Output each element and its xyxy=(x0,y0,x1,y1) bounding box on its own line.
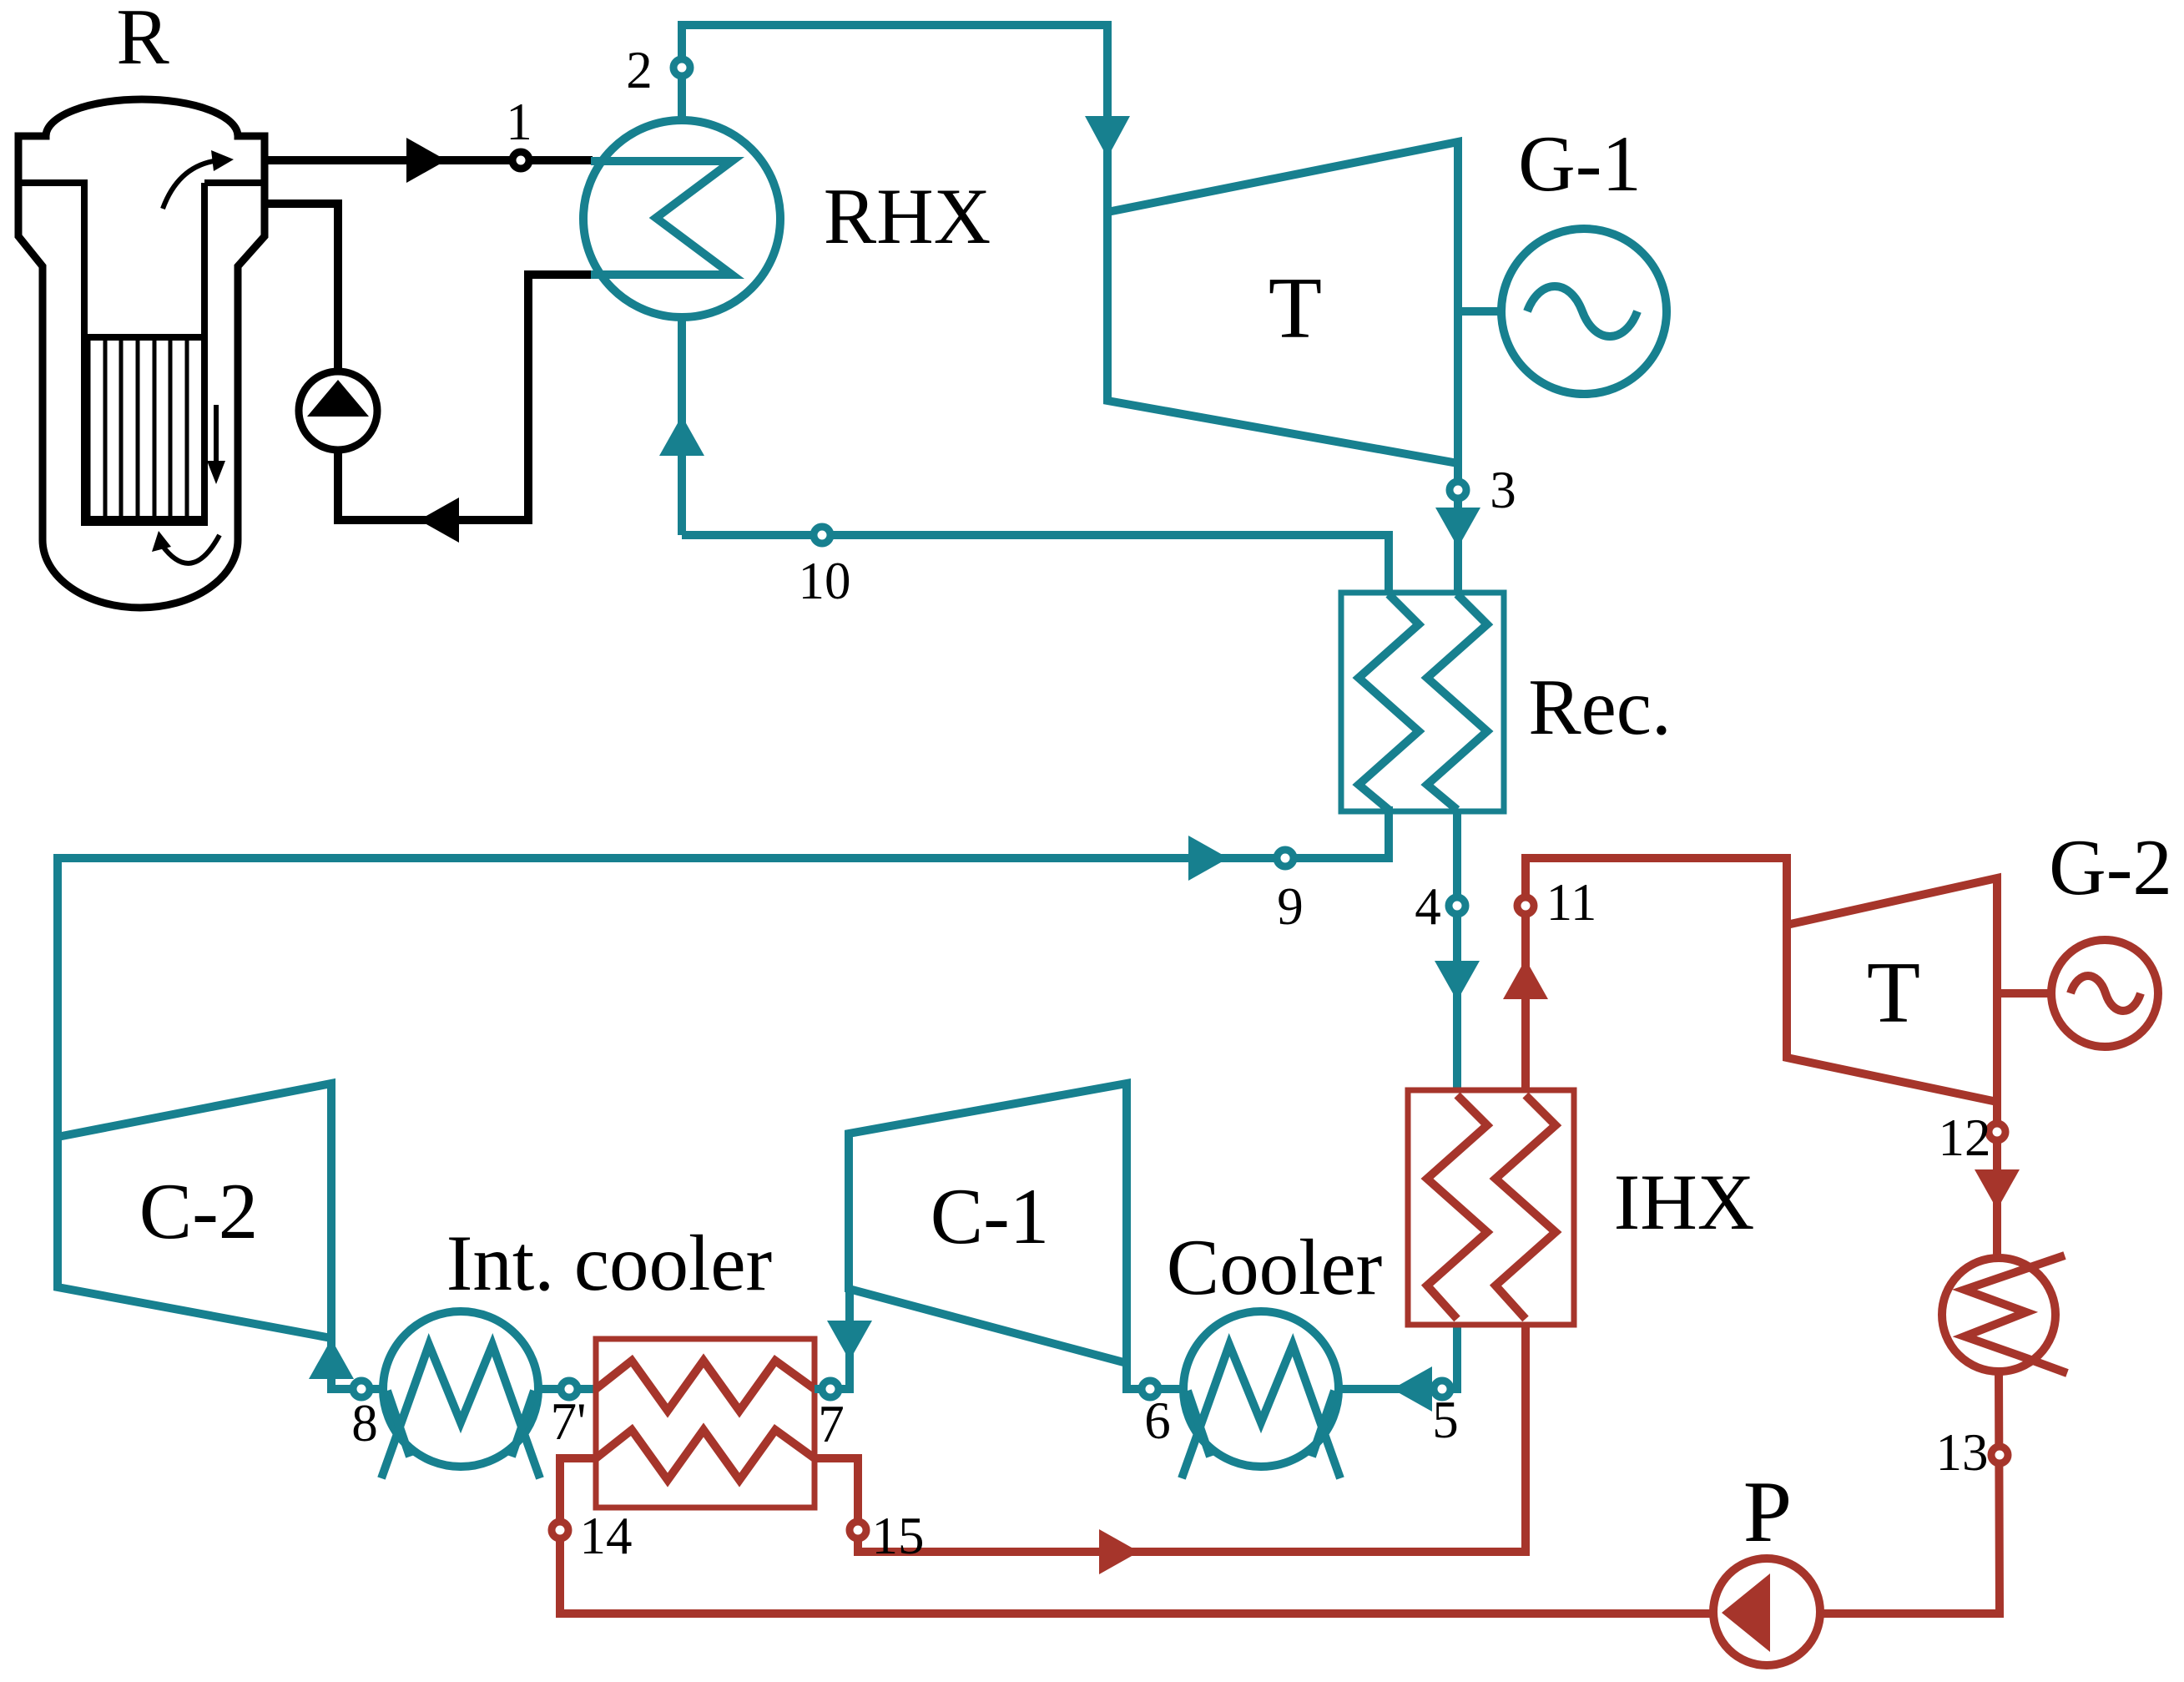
compressor C-2 xyxy=(58,1083,331,1338)
flow arrow into C-2 xyxy=(309,1339,354,1379)
wire C-1 inlet xyxy=(1127,1363,1183,1389)
svg-text:4: 4 xyxy=(1415,877,1441,936)
flow arrow up to node 11 xyxy=(1503,959,1548,999)
node 7 xyxy=(822,1381,839,1397)
wire node 9 line from C-2 xyxy=(58,858,1389,1137)
svg-text:IHX: IHX xyxy=(1614,1158,1755,1246)
heat exchanger RHX circle xyxy=(583,120,780,317)
compressor C-1 xyxy=(849,1083,1127,1363)
svg-text:T: T xyxy=(1269,259,1322,356)
node 14 xyxy=(552,1522,568,1538)
node 1 xyxy=(512,152,529,169)
node 12 xyxy=(1989,1124,2005,1140)
intercooler water-side zigzag xyxy=(596,1430,815,1480)
svg-text:7: 7 xyxy=(818,1395,845,1453)
reactor R core hatching xyxy=(88,337,187,518)
svg-text:7': 7' xyxy=(551,1392,587,1451)
wire node 7 stub xyxy=(815,1289,850,1389)
flow arrow toward cooler xyxy=(1392,1366,1432,1412)
flow arrow on return wire xyxy=(419,498,459,543)
RHX coil xyxy=(591,161,732,275)
wire cooler to IHX leg xyxy=(1339,1325,1457,1389)
flow arrow into recuperator xyxy=(1435,508,1480,548)
intercooler heat exchanger box xyxy=(596,1339,815,1508)
node 10 xyxy=(814,527,830,543)
node 3 xyxy=(1450,482,1466,498)
svg-text:Int. cooler: Int. cooler xyxy=(446,1219,772,1307)
flow arrow into RHX xyxy=(659,416,704,456)
cooler circle xyxy=(1183,1311,1339,1467)
reactor R lower flow arrow xyxy=(162,535,219,563)
svg-text:2: 2 xyxy=(626,41,653,99)
wire pump discharge to reactor xyxy=(267,204,338,371)
wire turbine T-1 outlet down xyxy=(1454,463,1462,594)
shaft T-1 to G-1 xyxy=(1458,307,1502,316)
node 8 xyxy=(353,1381,370,1397)
svg-text:15: 15 xyxy=(872,1507,925,1565)
node 15 xyxy=(850,1522,866,1538)
svg-text:C-2: C-2 xyxy=(139,1167,259,1255)
svg-text:8: 8 xyxy=(351,1394,378,1452)
wire IHX water outlet to turbine T-2 xyxy=(1526,858,1787,1090)
wire node 7' stub xyxy=(538,1385,596,1393)
flow arrow toward node 9 xyxy=(1188,836,1228,881)
shaft T-2 to G-2 xyxy=(1997,989,2051,998)
intercooler gas circle xyxy=(383,1311,538,1467)
node 9 xyxy=(1277,850,1294,866)
svg-text:11: 11 xyxy=(1546,873,1597,932)
IHX gas-side zigzag xyxy=(1427,1095,1487,1319)
node 6 xyxy=(1142,1381,1158,1397)
turbine T-2 xyxy=(1787,878,1997,1102)
svg-text:14: 14 xyxy=(580,1507,633,1565)
reactor R downcomer arrow xyxy=(214,405,219,472)
heat exchanger IHX box xyxy=(1408,1090,1574,1325)
wire reactor outlet to RHX xyxy=(267,156,593,164)
wire intercooler water out to IHX xyxy=(815,1325,1526,1552)
flow arrow into IHX xyxy=(1435,961,1480,1001)
svg-text:10: 10 xyxy=(799,552,851,610)
node 2 xyxy=(673,59,690,76)
wire RHX return to pump xyxy=(338,275,593,520)
wire gas cooler to pump xyxy=(1820,1371,2000,1614)
flow arrow into turbine T-1 xyxy=(1085,116,1130,158)
svg-text:G-2: G-2 xyxy=(2049,823,2172,912)
intercooler gas-side zigzag xyxy=(596,1361,815,1411)
reactor R upper flow arrow xyxy=(163,161,214,209)
svg-text:1: 1 xyxy=(506,93,532,151)
gas cooler circle xyxy=(1942,1258,2055,1371)
svg-text:Rec.: Rec. xyxy=(1528,663,1671,751)
wire RHX top to turbine T-1 xyxy=(682,25,1107,212)
flow arrow out of C-1 xyxy=(827,1321,872,1361)
wire pump to node 14 riser xyxy=(560,1458,1713,1614)
svg-text:Cooler: Cooler xyxy=(1167,1223,1383,1311)
recuperator Rec. box xyxy=(1341,593,1504,811)
svg-text:RHX: RHX xyxy=(824,172,991,260)
flow arrow on reactor outlet wire xyxy=(406,138,446,183)
wire node 10 line from RHX to Rec xyxy=(682,535,1389,594)
primary pump xyxy=(299,371,377,450)
node 5 xyxy=(1434,1381,1450,1397)
reactor R inner barrel xyxy=(18,183,265,518)
wire T-2 outlet down xyxy=(1993,1102,2001,1258)
wire RHX inlet from node 10 line xyxy=(678,317,686,535)
flow arrow down to gas cooler xyxy=(1975,1169,2020,1210)
pump P xyxy=(1713,1558,1820,1665)
svg-text:T: T xyxy=(1867,943,1920,1041)
wire Rec hot outlet down to IHX xyxy=(1453,810,1461,1090)
node 7' xyxy=(561,1381,578,1397)
reactor R vessel outline xyxy=(18,99,265,608)
Rec. cold-side zigzag xyxy=(1359,594,1419,810)
generator G-1 xyxy=(1501,229,1667,394)
svg-text:P: P xyxy=(1743,1462,1792,1560)
node 4 xyxy=(1449,897,1465,914)
generator G-2 xyxy=(2051,940,2158,1047)
node 13 xyxy=(1991,1447,2008,1463)
node 11 xyxy=(1517,897,1534,914)
turbine T-1 xyxy=(1107,142,1458,463)
svg-text:9: 9 xyxy=(1277,877,1304,936)
svg-text:R: R xyxy=(116,0,169,81)
wire C-2 inlet stub xyxy=(331,1338,383,1389)
svg-text:13: 13 xyxy=(1936,1423,1989,1482)
reactor R core support plate xyxy=(81,516,208,526)
svg-text:5: 5 xyxy=(1432,1391,1459,1449)
svg-text:3: 3 xyxy=(1490,461,1516,519)
svg-text:6: 6 xyxy=(1144,1392,1171,1450)
flow arrow to IHX water inlet xyxy=(1099,1529,1139,1574)
IHX water-side zigzag xyxy=(1496,1095,1556,1319)
wire Rec cold outlet down to node 9 line xyxy=(1385,806,1393,862)
svg-text:C-1: C-1 xyxy=(931,1172,1050,1260)
svg-text:G-1: G-1 xyxy=(1518,119,1642,208)
svg-text:12: 12 xyxy=(1939,1109,1991,1167)
Rec. hot-side zigzag xyxy=(1427,594,1487,810)
